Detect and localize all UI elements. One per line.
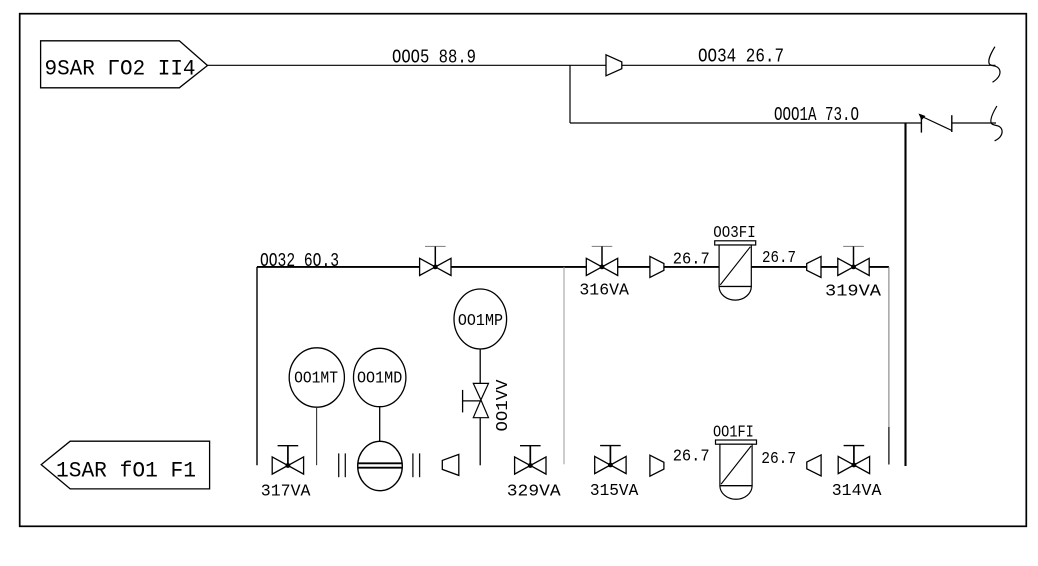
svg-text:OO1MT: OO1MT [294,369,338,388]
svg-text:315VA: 315VA [590,482,639,501]
svg-text:OOO1A 73.O: OOO1A 73.O [774,104,859,126]
svg-text:26.7: 26.7 [673,251,710,270]
svg-text:26.7: 26.7 [761,450,796,469]
svg-text:329VA: 329VA [507,482,562,501]
svg-text:9SAR ΓO2 II4: 9SAR ΓO2 II4 [45,57,196,82]
svg-text:OO32 6O.3: OO32 6O.3 [260,250,339,272]
svg-text:314VA: 314VA [832,482,882,501]
svg-text:26.7: 26.7 [673,448,710,467]
svg-text:OO1MP: OO1MP [458,312,503,331]
svg-text:316VA: 316VA [579,282,629,301]
svg-text:26.7: 26.7 [762,249,796,268]
svg-text:OO1MD: OO1MD [357,369,402,388]
svg-text:OO3FI: OO3FI [713,224,755,243]
svg-text:OO1VV: OO1VV [494,379,513,432]
svg-text:OO34 26.7: OO34 26.7 [698,45,784,67]
svg-text:1SAR fO1 F1: 1SAR fO1 F1 [56,459,196,484]
svg-text:OOO5 88.9: OOO5 88.9 [392,47,476,69]
svg-text:319VA: 319VA [825,283,882,302]
svg-text:OO1FI: OO1FI [713,423,754,442]
svg-text:317VA: 317VA [261,482,311,501]
